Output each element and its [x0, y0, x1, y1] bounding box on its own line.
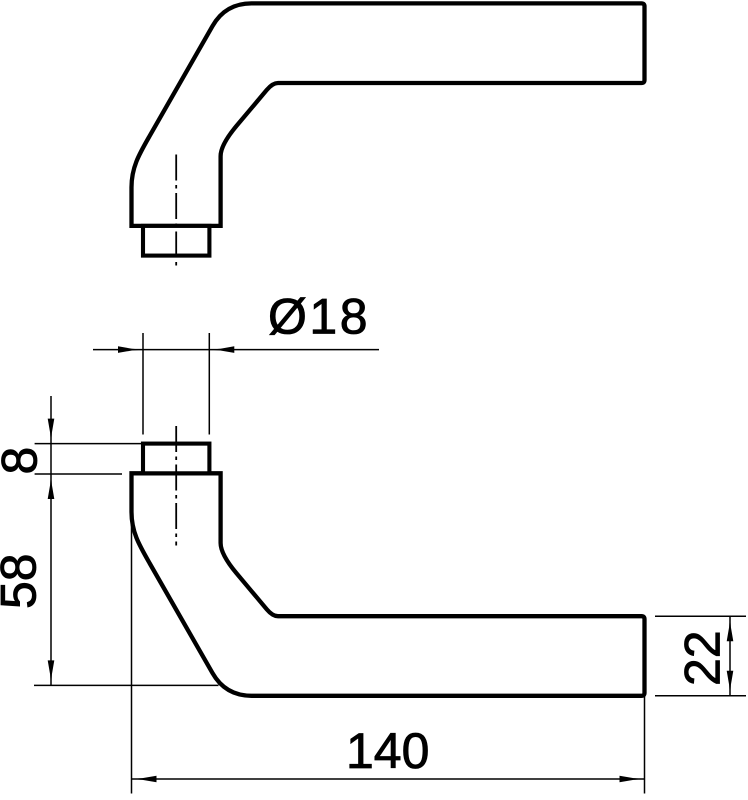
dimension 22 extension line bottom — [655, 695, 746, 697]
dimension Ø18 arrow left — [118, 346, 143, 353]
dimension 140 arrow left — [132, 776, 157, 783]
dimension 8/58 shared dimension line — [50, 396, 52, 685]
dimension 140 extension line left — [131, 505, 133, 794]
dimension Ø18 extension line right — [208, 333, 210, 435]
svg-text:Ø18: Ø18 — [268, 289, 370, 345]
dimension Ø18 extension line left — [142, 333, 144, 435]
dimension 140 extension line right — [644, 617, 646, 794]
dimension 22 arrow top — [727, 616, 734, 641]
dimension 58 label — [0, 553, 47, 609]
centerline, upper view — [175, 155, 177, 271]
svg-text:58: 58 — [0, 553, 47, 609]
dimension Ø18 arrow right — [209, 346, 234, 353]
dimension 22 label — [675, 630, 731, 686]
dimension 8 label — [0, 447, 48, 475]
dimension 140 arrow right — [620, 776, 645, 783]
dimension 8 extension line bottom — [35, 473, 122, 475]
dimension 8 arrow top — [48, 419, 55, 444]
dimension 22 line — [729, 616, 731, 696]
svg-text:22: 22 — [675, 630, 731, 686]
centerline, lower view — [175, 426, 177, 546]
dimension 58 extension line bottom — [34, 684, 219, 686]
dimension 22 arrow bottom — [727, 671, 734, 696]
spindle collar, lower view — [143, 444, 209, 474]
dimension 22 extension line top — [655, 615, 746, 617]
handle outline, upper mirrored view — [132, 3, 645, 255]
handle outline, lower view — [132, 473, 645, 696]
dimension Ø18 line — [93, 349, 379, 351]
svg-text:140: 140 — [346, 723, 429, 779]
dimension 8 arrow bottom / 58 arrow top — [48, 474, 55, 499]
dimension 140 line — [132, 778, 645, 780]
svg-text:8: 8 — [0, 447, 48, 475]
dimension 58 arrow bottom — [48, 660, 55, 685]
dimension 8 extension line top — [35, 443, 143, 445]
